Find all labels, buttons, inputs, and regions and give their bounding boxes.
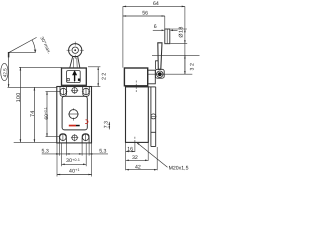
side view: head step xyxy=(148,70,156,84)
extension line body bottom left xyxy=(14,141,57,143)
side view: head block xyxy=(124,68,147,86)
dim 32 right xyxy=(184,55,195,74)
svg-text:40+1: 40+1 xyxy=(69,168,80,174)
svg-text:42.5: 42.5 xyxy=(2,68,7,77)
front view: lever arm xyxy=(70,56,80,68)
dim 30+0.1 xyxy=(62,158,87,165)
red/black indicator bar xyxy=(69,125,76,127)
top mounting slot left xyxy=(60,86,67,96)
dim 22 xyxy=(88,67,107,87)
svg-text:64: 64 xyxy=(153,1,159,7)
svg-text:7.3: 7.3 xyxy=(104,121,110,128)
dim 6 xyxy=(153,24,178,31)
svg-text:30+0.1: 30+0.1 xyxy=(66,158,80,164)
svg-text:56: 56 xyxy=(142,10,148,16)
top screw right xyxy=(82,88,90,96)
bottom mounting slot left xyxy=(59,134,66,143)
dim 32 bottom xyxy=(126,155,149,161)
side view: roller xyxy=(165,29,170,44)
svg-text:16: 16 xyxy=(127,146,133,152)
extension line body top left xyxy=(8,86,58,88)
svg-text:32: 32 xyxy=(189,62,195,71)
bottom plunger xyxy=(71,134,78,141)
svg-text:6: 6 xyxy=(154,24,157,30)
svg-text:32: 32 xyxy=(132,155,138,161)
dim 100 xyxy=(16,67,22,142)
side view: body xyxy=(126,87,149,142)
front view: roller xyxy=(67,42,84,59)
cover screw xyxy=(68,108,79,120)
svg-text:100: 100 xyxy=(16,92,22,102)
bottom mounting slot right xyxy=(82,134,89,143)
top plunger xyxy=(71,87,78,94)
dim 60+0.1 (red) xyxy=(44,92,50,137)
side view: pivot xyxy=(157,71,163,77)
svg-text:5,3: 5,3 xyxy=(99,149,106,155)
top mounting slot right xyxy=(83,86,90,96)
side extension lines bottom xyxy=(126,143,158,170)
angle vertex tick xyxy=(8,52,10,57)
extension line head top left xyxy=(19,66,61,68)
side view: back plate xyxy=(148,87,156,147)
dim 7.3 xyxy=(104,121,111,130)
svg-text:Ø18: Ø18 xyxy=(178,26,184,37)
head direction arrow xyxy=(72,70,80,81)
bottom screw left xyxy=(60,134,66,142)
extension lines hole centers xyxy=(46,91,61,93)
dim 40+1 xyxy=(57,168,92,175)
dim 42 xyxy=(126,165,158,171)
head small marks xyxy=(67,78,75,82)
dim 5,3 left and right xyxy=(42,149,109,155)
side view: pivot housing xyxy=(155,69,164,78)
dim 16 xyxy=(126,146,135,152)
side view: hidden gland line xyxy=(135,81,137,93)
dim 56 xyxy=(123,10,165,16)
30deg max angle symbol xyxy=(9,37,37,52)
side view: head neck xyxy=(156,61,159,70)
side extension lines top xyxy=(123,6,200,74)
side view: cover screw xyxy=(151,114,156,119)
svg-text:74: 74 xyxy=(30,110,36,117)
front view: head block xyxy=(62,68,87,85)
capsule label 42.5 xyxy=(1,63,8,80)
svg-text:42: 42 xyxy=(135,165,141,171)
svg-text:22: 22 xyxy=(101,72,107,80)
red rotation indicator arc xyxy=(85,120,88,124)
dim 64 xyxy=(123,1,185,7)
top screw left xyxy=(59,88,67,96)
svg-text:5,3: 5,3 xyxy=(42,149,49,155)
front view: body outline xyxy=(57,87,92,143)
side view: gland centerline bottom xyxy=(134,137,136,143)
svg-text:30°max.: 30°max. xyxy=(39,36,52,55)
dim 74 xyxy=(30,87,36,142)
M20x1,5 leader xyxy=(136,142,188,171)
front view: cover plate xyxy=(62,96,87,130)
lever reference line xyxy=(8,53,10,87)
dim dia 18 xyxy=(178,26,185,43)
side view: lever xyxy=(158,43,162,70)
bottom screw right xyxy=(82,134,88,142)
svg-text:60+0.1: 60+0.1 xyxy=(44,107,50,119)
bottom extension lines xyxy=(57,143,92,177)
svg-text:M20x1,5: M20x1,5 xyxy=(169,165,189,171)
